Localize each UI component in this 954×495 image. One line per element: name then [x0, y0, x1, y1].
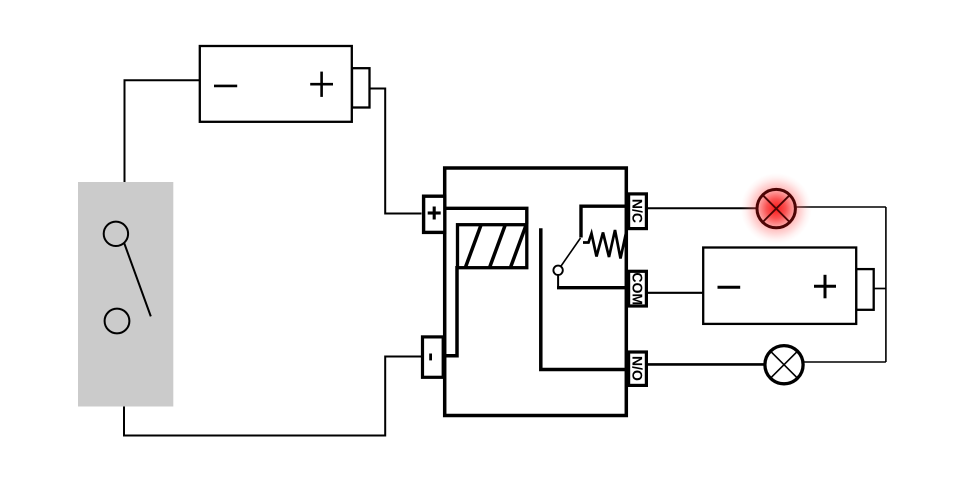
wire relay N/C to lamp L1 [646, 207, 756, 209]
relay terminal N/C box [629, 194, 647, 229]
wire relay COM to battery B2 [646, 292, 704, 294]
relay terminal + box [424, 196, 445, 232]
wire lamp L1 to right rail [796, 206, 886, 208]
relay armature pivot contact [553, 266, 562, 275]
wire lamp L2 to right rail [803, 361, 886, 363]
relay terminal COM box [629, 271, 647, 306]
lamp L2 (off) [765, 346, 803, 384]
lamp L1 (lit, red) glow [741, 173, 812, 244]
wire switch S1 bottom to relay - terminal [124, 357, 421, 436]
battery B1 [200, 46, 370, 122]
battery B2 [703, 248, 874, 324]
relay U1 body [445, 168, 627, 416]
right rail wire [885, 207, 887, 362]
wire battery B2 positive to right rail [874, 288, 886, 290]
relay armature lever [561, 238, 581, 267]
wire battery B1 negative to switch S1 top [125, 80, 201, 182]
wire armature to COM terminal [557, 275, 559, 288]
relay coil (hatched box) [458, 225, 527, 269]
relay contact spring (zigzag) [583, 230, 627, 259]
relay terminal N/O box [629, 352, 647, 385]
wire relay coil bottom to - terminal [446, 266, 457, 356]
relay terminal - box [423, 337, 444, 377]
relay pole wire to N/O [541, 228, 625, 369]
lamp L1 (lit, red) [757, 189, 795, 227]
relay N/C contact wire [581, 206, 625, 237]
wire relay N/O to lamp L2 [646, 363, 765, 366]
switch S1 [78, 182, 173, 407]
wire battery B1 positive down to relay + terminal [369, 89, 422, 214]
relay coil feed wire from + terminal [445, 208, 527, 224]
